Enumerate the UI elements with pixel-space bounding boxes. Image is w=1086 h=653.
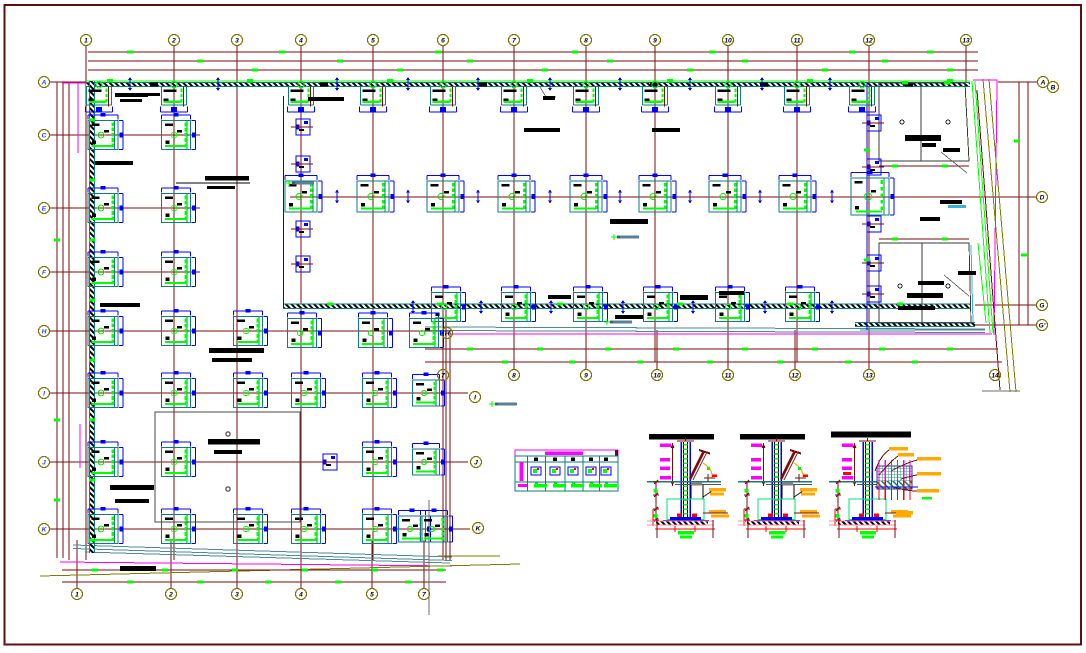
svg-text:1: 1 [84, 37, 88, 44]
svg-text:I: I [43, 390, 45, 397]
svg-text:1: 1 [75, 591, 79, 598]
svg-text:C: C [42, 132, 47, 139]
svg-text:3: 3 [235, 591, 239, 598]
svg-text:13: 13 [865, 372, 873, 379]
svg-text:2: 2 [171, 37, 176, 44]
svg-text:J: J [42, 459, 46, 466]
svg-text:6: 6 [441, 37, 445, 44]
svg-text:I: I [474, 394, 476, 401]
svg-text:9: 9 [653, 37, 657, 44]
svg-text:7: 7 [422, 591, 426, 598]
svg-text:A: A [1040, 79, 1046, 86]
svg-text:13: 13 [962, 37, 970, 44]
svg-text:8: 8 [512, 372, 516, 379]
svg-text:3: 3 [235, 37, 239, 44]
svg-text:12: 12 [865, 37, 873, 44]
svg-text:11: 11 [725, 372, 732, 379]
svg-text:12: 12 [791, 372, 799, 379]
svg-text:H: H [42, 328, 47, 335]
svg-text:H: H [445, 330, 450, 337]
svg-text:10: 10 [724, 37, 732, 44]
svg-text:7: 7 [441, 372, 445, 379]
svg-text:G': G' [1039, 322, 1046, 329]
svg-text:7: 7 [512, 37, 516, 44]
svg-text:A: A [41, 79, 47, 86]
svg-text:B: B [1051, 84, 1056, 91]
svg-text:4: 4 [298, 37, 303, 44]
svg-text:5: 5 [371, 37, 375, 44]
svg-text:14: 14 [991, 372, 999, 379]
svg-text:10: 10 [653, 372, 661, 379]
svg-text:9: 9 [584, 372, 588, 379]
svg-text:4: 4 [298, 591, 303, 598]
svg-text:E: E [42, 205, 47, 212]
svg-text:D: D [1040, 194, 1045, 201]
svg-text:J: J [474, 459, 478, 466]
svg-text:5: 5 [370, 591, 374, 598]
svg-text:G: G [1039, 302, 1044, 309]
svg-text:2: 2 [168, 591, 173, 598]
svg-text:11: 11 [794, 37, 801, 44]
svg-text:8: 8 [584, 37, 588, 44]
